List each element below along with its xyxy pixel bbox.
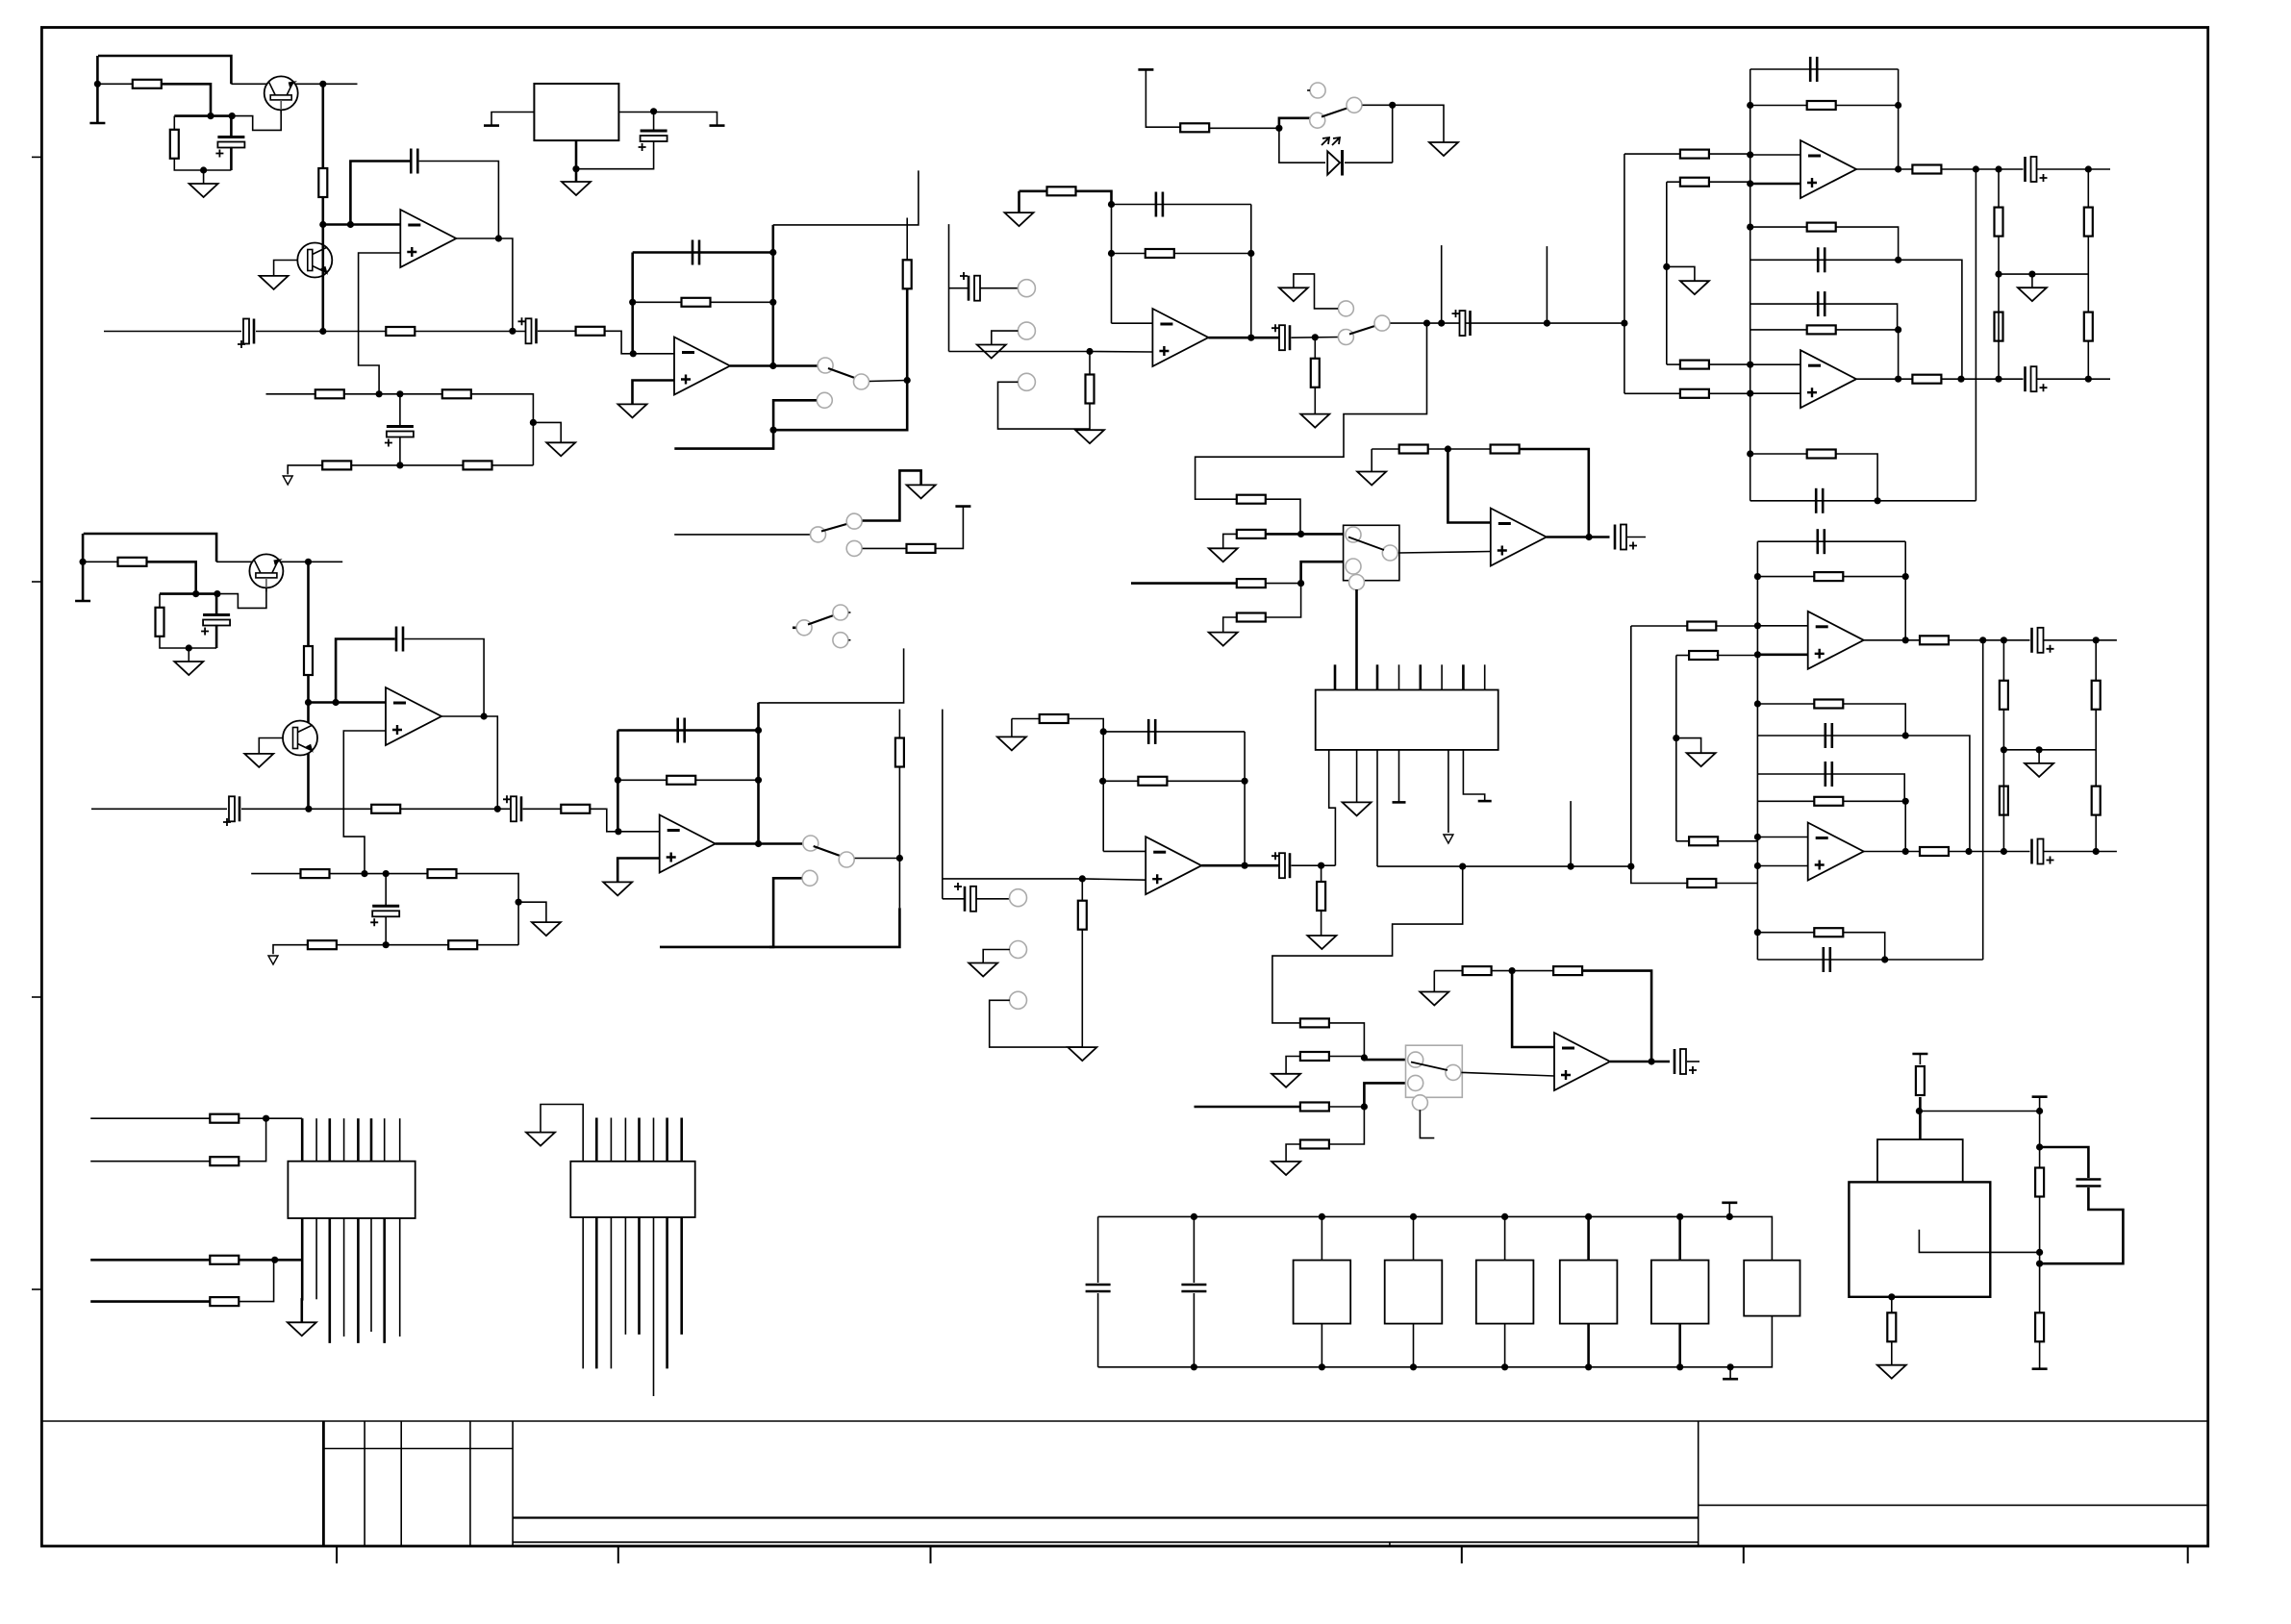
wire ch2 vert 935 bot — [898, 767, 900, 909]
switch SW4 lever — [808, 615, 835, 625]
wire led drop — [1392, 105, 1394, 162]
node filt mid 5 — [1995, 271, 2001, 278]
wire U3 right v 1 — [1250, 205, 1252, 338]
resistor feed U7 plus — [1689, 651, 1718, 660]
wire ladder D — [1266, 584, 1301, 617]
wire CE top 1 — [230, 116, 233, 137]
wire br right col — [2039, 1097, 2041, 1168]
wire minus U1 — [323, 223, 401, 226]
wire filt plus2 5 — [1750, 392, 1800, 394]
capacitor line C — [1452, 310, 1471, 336]
wire ch2 ladder C in — [1195, 1106, 1301, 1109]
resistor feed U8 minus — [1689, 837, 1718, 845]
connector J2 pin top 4 — [624, 1118, 626, 1162]
wire filt outdn 7 — [1982, 640, 1984, 960]
wire U2 right v 2 — [757, 703, 760, 844]
resistor ch2 R8 — [308, 940, 337, 949]
wire filt resB 5 — [1750, 227, 1899, 260]
resistor U3 plus — [1086, 375, 1095, 404]
ground regulator — [562, 182, 591, 195]
wire top rail 3 — [84, 534, 216, 562]
node ch2 SW out — [896, 855, 903, 862]
transistor Q1 pnp — [264, 76, 298, 113]
switch SW3 lever — [821, 524, 848, 532]
wire U4b fb right — [1582, 971, 1651, 1062]
ground U4 rail — [1357, 472, 1386, 486]
wire filt railB 5 — [1750, 304, 1898, 330]
connector J2 pin top 2 — [595, 1118, 598, 1162]
node ch2 ladder AB — [1361, 1054, 1368, 1061]
node ch2 minus b — [333, 699, 340, 706]
switch SW4 nc — [833, 633, 848, 648]
wire br thick loop2 — [2040, 1187, 2124, 1263]
wire U2 res l 1 — [633, 301, 682, 303]
wire U2 plus 1 — [633, 381, 675, 405]
ground J1 — [288, 1322, 316, 1336]
switch SW2 nc — [1338, 301, 1353, 316]
capacitor ch2 C3 — [503, 795, 521, 821]
node bias 1 — [94, 81, 101, 87]
wire div gnd hook — [533, 422, 561, 442]
wire ladder B gnd — [1223, 534, 1237, 548]
wire led out — [1363, 105, 1445, 142]
wire bias feed 1 — [97, 83, 132, 85]
wire filt resC 7 — [1757, 800, 1905, 802]
node filt railBot 7 — [1881, 956, 1888, 962]
relay box K2 — [1385, 1261, 1443, 1324]
op-amp U1 — [400, 210, 456, 267]
wire ch2 ladder D gnd — [1286, 1144, 1300, 1162]
resistor ch2 R6 — [301, 869, 330, 878]
wire filt left v 5 — [1750, 69, 1751, 501]
switch SW4 pivot — [796, 620, 812, 636]
switch box U4 — [1344, 525, 1399, 580]
node filt o1b 7 — [2001, 637, 2007, 643]
node br r2 — [2036, 1143, 2043, 1150]
wire filt out2 5 — [1856, 378, 2024, 380]
wire left drop 1 — [96, 56, 99, 123]
capacitor U4b out — [1674, 1049, 1697, 1074]
node U4 fb — [1445, 445, 1451, 452]
capacitor filt A 7 — [1818, 529, 1825, 554]
capacitor filt railBot 7 — [1824, 947, 1830, 972]
wire base 1 — [211, 110, 281, 130]
node filt resA r 7 — [1902, 573, 1909, 580]
wire bank T t stem — [1728, 1203, 1730, 1217]
wire emitter drop 1 — [321, 84, 324, 168]
wire main 3 — [415, 331, 525, 333]
wire ch2 post sw — [1377, 865, 1631, 867]
node filt le 7 — [1754, 834, 1761, 840]
resistor filt D 5 — [1807, 450, 1836, 459]
wire filt rv2 5 — [1898, 330, 1900, 379]
node filt o1a 7 — [1979, 637, 1986, 643]
U4 box lever — [1348, 537, 1384, 551]
ground ch2 ladder D — [1271, 1162, 1300, 1175]
node filt out2c 7 — [2093, 848, 2100, 855]
wire filt outdn 5 — [1975, 169, 1976, 501]
node filt midg 7 — [2036, 746, 2043, 753]
node U4 out — [1586, 534, 1593, 540]
cap bank top rail — [1098, 1216, 1773, 1260]
wire vert 943 top — [906, 218, 908, 261]
wire main 4 — [538, 330, 576, 332]
rail br top — [1912, 1053, 1927, 1056]
op-amp U2 2 — [660, 815, 716, 873]
resistor feed U8 plus — [1687, 879, 1716, 887]
resistor J1 in1 — [210, 1114, 239, 1123]
ground header J3 — [1343, 802, 1372, 815]
transformer box T1b — [1849, 1182, 1990, 1296]
capacitor filt A 5 — [1810, 57, 1817, 82]
wire bus2 — [1666, 182, 1668, 364]
wire filt plus1 5 — [1750, 183, 1800, 186]
wire ch2 div line — [251, 873, 300, 875]
header J3 pin b6 — [1463, 750, 1484, 801]
node reg gnd — [572, 165, 579, 172]
rail terminal 1 — [89, 122, 105, 125]
wire U4b fb mid — [1492, 970, 1553, 972]
resistor fb U3b — [1138, 777, 1167, 786]
node ch2 minus U2b — [615, 828, 621, 835]
wire U3b res rail — [1103, 780, 1246, 782]
node U3 plus — [1086, 348, 1093, 355]
resistor br top — [1916, 1066, 1925, 1095]
node K4 t — [1585, 1213, 1592, 1220]
wire J1 in4 — [90, 1300, 210, 1303]
wire ch2 main in — [91, 808, 227, 810]
header J3 pin b5 — [1448, 750, 1449, 833]
ground U4b rail — [1420, 992, 1448, 1006]
wire J1 in2 — [90, 1161, 210, 1162]
op-amp U4 — [1491, 509, 1547, 566]
resistor ch2 R9 — [448, 940, 477, 949]
wire ch2 minus U1b — [309, 701, 387, 704]
border tick left 2 — [32, 581, 41, 583]
header J3 pin top 6 — [1441, 664, 1443, 689]
wire ch2 U1b out drop — [441, 716, 497, 809]
node led — [1275, 125, 1282, 132]
wire feed U7 minus r — [1716, 625, 1757, 627]
wire U3b minus — [1103, 850, 1145, 852]
capacitor fb U3 1 — [1156, 192, 1163, 217]
resistor br right1 — [2035, 1168, 2044, 1197]
connector J1 pin b7 — [383, 1218, 386, 1343]
node filt o2a 7 — [1965, 848, 1972, 855]
resistor RC 3 — [156, 608, 164, 637]
node bank T b — [1727, 1363, 1734, 1370]
node br mid1 — [2036, 1249, 2043, 1256]
wire ch2 fb right — [404, 639, 484, 715]
node filt resC r 5 — [1895, 326, 1901, 333]
node filt lf 5 — [1747, 390, 1753, 397]
cap bank left2 — [1097, 1293, 1099, 1367]
relay K5 stem top — [1678, 1216, 1681, 1260]
node filt out1c 5 — [2085, 165, 2092, 172]
capacitor bank C2 — [1181, 1285, 1206, 1291]
node div b — [396, 390, 403, 397]
node emitter 3 — [305, 559, 312, 565]
node br r1 — [2036, 1108, 2043, 1114]
node ladder CD — [1297, 580, 1304, 587]
node ch2 div a — [361, 870, 367, 877]
wire emitter drop 3 — [307, 562, 310, 646]
capacitor U3b out — [1271, 852, 1290, 878]
op-amp U2 1 — [674, 337, 730, 395]
switch SW2 pivot — [1338, 330, 1353, 345]
wire U3b bias r — [1069, 719, 1104, 732]
wire U4b stem — [1420, 1110, 1434, 1137]
wire main 5 — [604, 331, 633, 354]
wire ladder C in — [1131, 582, 1237, 585]
wire stub2 — [1546, 246, 1548, 323]
node U4b fb — [1509, 967, 1516, 974]
node U2 fb a 1 — [629, 299, 636, 306]
wire U3 plus r bot — [1089, 404, 1091, 431]
title block col thick — [322, 1421, 325, 1546]
U4 box circle in1 — [1346, 527, 1361, 542]
capacitor CE 1 — [215, 137, 244, 158]
resistor J1 in3 — [210, 1256, 239, 1264]
wire filt minus1 5 — [1750, 154, 1800, 156]
connector J2 pin top 3 — [610, 1118, 612, 1162]
resistor filt out2 7 — [1920, 847, 1949, 856]
wire feed U5 plus r — [1709, 181, 1750, 183]
header J3 gnd stem — [1356, 750, 1358, 803]
resistor ladder C — [1237, 579, 1266, 587]
wire bias feed 3 — [83, 561, 117, 562]
node K3 t — [1501, 1213, 1508, 1220]
op-amp filt U5a — [1800, 140, 1856, 198]
wire U2 minus 1 — [633, 353, 674, 355]
connector J1 pin b1 — [300, 1218, 303, 1322]
capacitor C4 — [385, 427, 414, 447]
wire U4b rail gnd — [1434, 970, 1462, 972]
node filt o2a 5 — [1957, 376, 1964, 383]
U4 box circle in2 — [1346, 559, 1361, 574]
wire U2 cap rail 2 — [617, 729, 758, 732]
wire filt railBot 7 — [1757, 959, 1982, 961]
resistor feed U5 plus — [1680, 178, 1709, 187]
wire ch2 stub1 — [1570, 801, 1572, 866]
resistor J1 in2 — [210, 1157, 239, 1165]
header J3 pin b1 — [1329, 750, 1336, 865]
ground sw2 node — [1300, 414, 1329, 428]
switch SW pivot 1 — [818, 358, 833, 373]
wire ladder D gnd — [1223, 617, 1237, 633]
wire filt rcol 5 — [1998, 169, 2000, 274]
connector ch2 circle 3 — [1010, 991, 1027, 1009]
wire J1 in3b — [239, 1259, 302, 1262]
wire emitter drop2 3 — [307, 675, 310, 703]
node bank c2 t — [1191, 1213, 1197, 1220]
resistor U4 in — [1399, 445, 1428, 454]
resistor R8 — [322, 461, 351, 469]
connector J1 pin b5 — [357, 1218, 360, 1343]
resistor filt rcol2 7 — [2000, 787, 2008, 815]
wire bias to RC 1 — [162, 84, 211, 115]
capacitor input C0 — [243, 319, 254, 344]
node filt le 5 — [1747, 362, 1753, 368]
U4b circle in1 — [1408, 1052, 1423, 1067]
wire U2 res r 1 — [710, 301, 773, 303]
ground ch2 bus2 — [1687, 753, 1716, 766]
resistor led — [1180, 123, 1209, 132]
connector J2 pin b3 — [610, 1217, 612, 1368]
switch SW3 pivot — [811, 527, 826, 542]
connector J1 pin b2 — [315, 1218, 317, 1299]
wire conn cap r — [980, 287, 1018, 289]
node U2 fb a 2 — [615, 777, 621, 784]
node ch2 bus1 — [1627, 863, 1634, 870]
wire ch2 bus2 — [1675, 656, 1677, 841]
relay K3 stem bot — [1504, 1324, 1506, 1367]
wire div bottom — [288, 465, 533, 475]
relay K1 stem top — [1321, 1216, 1322, 1260]
wire U4b minus — [1512, 971, 1554, 1047]
rail bank top — [1722, 1202, 1737, 1205]
node RC gnd 1 — [200, 166, 207, 173]
switch LED float — [1310, 83, 1325, 98]
wire filt rv1 7 — [1904, 541, 1906, 640]
capacitor filt out2 7 — [2032, 839, 2054, 864]
switch SW pivot 2 — [803, 836, 818, 851]
wire CE bot 3 — [215, 625, 218, 648]
node RC a 3 — [192, 590, 199, 597]
switch LED lever — [1322, 108, 1348, 117]
ground J2 — [526, 1133, 555, 1146]
wire SW nc loop 1 — [674, 400, 817, 448]
wire filt rv1 5 — [1898, 69, 1900, 169]
U4b lever — [1411, 1062, 1448, 1071]
ground SW2 nc — [1279, 287, 1308, 301]
capacitor filt out1 7 — [2032, 628, 2054, 653]
wire ch2 ladder AB sw — [1364, 1059, 1407, 1062]
wire SW3 nc2 — [936, 507, 964, 549]
switch LED throw — [1347, 97, 1362, 112]
switch SW2 throw — [1374, 315, 1390, 331]
ground led — [1429, 142, 1458, 156]
wire J1 in3 — [90, 1259, 210, 1262]
wire led in — [1145, 69, 1180, 127]
op-amp U3b — [1145, 837, 1201, 894]
wire br right col3 — [2039, 1341, 2041, 1369]
wire plus U1 — [359, 253, 401, 394]
wire ch2 main 4 — [523, 808, 562, 810]
node U3 r2 1 — [1247, 250, 1254, 257]
node U4b out — [1649, 1058, 1655, 1064]
header J3 pin top 5 — [1420, 664, 1422, 689]
connector J1 pin b6 — [370, 1218, 372, 1332]
node K2 b — [1410, 1363, 1417, 1370]
U4b circle com — [1446, 1064, 1461, 1080]
wire SW1 out — [869, 381, 907, 382]
wire collector 1 — [231, 83, 267, 85]
wire ch2 U3b plus rb — [1081, 930, 1083, 1047]
node RC gnd 3 — [186, 644, 192, 651]
node U2 out 2 — [755, 840, 762, 847]
node ladder AB — [1297, 531, 1304, 537]
node filt ld 7 — [1754, 700, 1761, 707]
node emitter 1 — [319, 81, 326, 87]
ground U3b bias — [997, 737, 1026, 750]
ground ch2 conn2 — [969, 963, 997, 977]
wire U2 res r 2 — [695, 779, 759, 781]
wire br thick loop — [2040, 1147, 2089, 1178]
node filt lc 7 — [1754, 651, 1761, 658]
capacitor conn C — [969, 276, 980, 301]
node filt rcol2b 5 — [1995, 376, 2001, 383]
connector J1 pin b3 — [328, 1218, 331, 1343]
node led out — [1389, 102, 1396, 109]
resistor ch2 R5 — [371, 805, 400, 813]
connector J1 pin top 1 — [301, 1118, 304, 1162]
node minus U2 — [630, 350, 637, 357]
wire filt resD 5 — [1750, 454, 1877, 501]
resistor filt A 5 — [1807, 101, 1836, 110]
connector J2 pin b7 — [666, 1217, 668, 1368]
wire filt rcol 7 — [2002, 640, 2004, 750]
wire U3 plus r top — [1089, 352, 1091, 375]
wire filt midg stem 5 — [2031, 274, 2033, 287]
op-amp filt U5b — [1800, 350, 1856, 408]
node br mid2 — [2036, 1261, 2043, 1267]
wire U4 plus — [1398, 552, 1491, 554]
switch SW3 throw — [846, 513, 862, 529]
wire reg cap bot — [576, 141, 654, 169]
title block row mid — [513, 1516, 1699, 1518]
relay box K5 — [1651, 1261, 1709, 1324]
wire ch2 C4 bot — [385, 916, 387, 945]
wire U3 bias 1 — [1020, 190, 1047, 193]
wire RC left 1 — [173, 116, 175, 130]
wire emitter 1 — [294, 83, 358, 85]
capacitor filt railA 7 — [1825, 723, 1832, 748]
wire stub1 — [1441, 245, 1443, 323]
node U2 r1 2 — [755, 727, 762, 734]
wire filt midrail 5 — [1999, 273, 2088, 275]
wire ch2 ladder A r — [1329, 1023, 1365, 1058]
resistor U4 fb — [1491, 445, 1520, 454]
wire U2 top elbow 1 — [773, 170, 919, 225]
relay box K1 — [1294, 1261, 1351, 1324]
border tick bottom 1 — [336, 1546, 338, 1563]
node filt out2c 5 — [2085, 376, 2092, 383]
resistor filt rcol1 7 — [2000, 681, 2008, 710]
node ch2 stub1 — [1568, 863, 1574, 870]
wire U4 box stem — [1357, 589, 1379, 691]
switch SW lever 1 — [828, 368, 856, 379]
rail SW3 — [955, 505, 970, 508]
wire led bottom — [1345, 162, 1393, 163]
wire SW3 out — [863, 470, 921, 520]
resistor RC 1 — [170, 130, 179, 159]
connector J2 pin top 6 — [653, 1118, 655, 1162]
relay box K6 — [1744, 1261, 1800, 1316]
node filt resC r 7 — [1902, 798, 1909, 805]
wire filt plus2 7 — [1757, 865, 1807, 867]
relay K4 stem bot — [1587, 1324, 1590, 1367]
resistor R5 main — [386, 327, 415, 336]
node filt o1a 5 — [1973, 165, 1979, 172]
connector J2 — [570, 1162, 694, 1217]
wire base 3 — [196, 587, 266, 608]
node div gnd — [530, 419, 537, 426]
ground small divider — [283, 476, 292, 485]
resistor R7 — [442, 389, 471, 398]
node RC b 1 — [229, 112, 236, 119]
wire U3b bias — [1012, 718, 1040, 720]
